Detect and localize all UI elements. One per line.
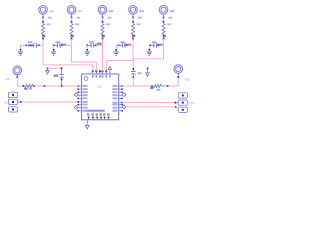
U1 designator	[97, 85, 101, 89]
port J6	[178, 107, 187, 112]
wire net2 to U1	[72, 39, 97, 71]
wire C5 to ground	[148, 45, 150, 50]
resistor R4 designator	[138, 17, 142, 19]
ground arrow A1	[46, 67, 50, 73]
resistor R1 value dark	[42, 35, 45, 38]
power port P2	[67, 6, 76, 19]
U1 left diamond 2	[74, 106, 78, 110]
capacitor C4 designator	[120, 41, 124, 43]
power port P5	[159, 6, 168, 19]
wire net4 to U1	[106, 39, 133, 71]
svg-text:IN: IN	[4, 101, 7, 105]
capacitor C2 value	[61, 44, 66, 46]
resistor R5	[162, 23, 165, 39]
resistor R6	[25, 84, 35, 87]
net label power 3	[109, 10, 114, 12]
ground GND4	[114, 52, 119, 55]
resistor R1 value	[47, 23, 51, 25]
resistor R6 label	[28, 88, 32, 90]
resistor R5 designator	[169, 17, 173, 19]
wire C3 to net3	[96, 44, 103, 46]
net label power 4	[139, 10, 144, 12]
resistor R4 value	[137, 23, 141, 25]
ground GND5	[147, 52, 152, 55]
capacitor C2 designator	[56, 41, 60, 43]
wire net5 to C7	[132, 39, 163, 70]
wire C1 to net1	[39, 44, 43, 46]
capacitor C1 value	[28, 44, 33, 46]
port J5	[178, 100, 187, 105]
capacitor C5 value	[157, 44, 162, 46]
power port VIN	[13, 66, 22, 78]
capacitor C3 value	[97, 43, 102, 45]
OUT label	[188, 101, 195, 105]
VDD label	[184, 77, 191, 81]
wire C2 to ground	[53, 45, 55, 50]
VIN label	[5, 77, 10, 81]
capacitor C4	[118, 43, 128, 48]
port J2	[8, 99, 17, 104]
ground GND3	[85, 52, 90, 55]
wire C4 to ground	[115, 45, 118, 50]
wire C8 to VIN net	[61, 79, 63, 86]
capacitor C3 designator	[89, 41, 93, 43]
power port P3	[98, 6, 107, 19]
net label power 2	[78, 10, 83, 12]
resistor R2 designator	[77, 17, 81, 19]
resistor R1	[41, 23, 44, 39]
power port P4	[129, 6, 138, 19]
U1 part number	[86, 110, 105, 112]
resistor R4	[131, 23, 134, 39]
wire R6 to U1	[34, 85, 78, 87]
resistor R6 value dark	[24, 88, 27, 90]
wire C5 to net5	[159, 44, 164, 46]
svg-text:U1: U1	[97, 85, 101, 89]
power port VDD	[174, 65, 183, 77]
capacitor C5 designator	[152, 41, 156, 43]
net label power 5	[170, 10, 175, 12]
capacitor C3	[86, 43, 96, 48]
svg-text:OUT: OUT	[188, 101, 195, 105]
resistor R3 designator	[108, 17, 112, 19]
wire power to R1	[42, 18, 44, 23]
capacitor C1	[25, 43, 40, 48]
U1 left diamond 1	[74, 93, 78, 97]
wire power to R4	[132, 18, 134, 23]
IC U1 body	[82, 74, 119, 120]
port J1	[8, 92, 17, 97]
resistor R3 value dark	[102, 35, 105, 38]
resistor R7	[153, 84, 168, 87]
capacitor C7 designator	[138, 72, 142, 74]
capacitor C2	[53, 43, 63, 48]
U1 left pins	[77, 85, 87, 112]
wire C2 to net2	[62, 44, 71, 46]
IN label	[4, 101, 7, 105]
U1 right diamond 1	[122, 93, 126, 97]
wire IN to U1	[18, 101, 79, 103]
U1 power pin arrow	[108, 66, 111, 77]
ground GND2	[51, 52, 56, 55]
ground GND1	[18, 52, 23, 55]
wire power to R5	[163, 18, 165, 23]
wire U1 to R7 net	[122, 85, 133, 87]
U1 top pins	[92, 70, 108, 77]
resistor R3	[101, 23, 104, 39]
resistor R7 label	[157, 89, 161, 91]
wire R7 to VDD	[168, 76, 179, 86]
wire C4 to net4	[127, 44, 133, 46]
wire net1 to U1	[43, 39, 93, 71]
resistor R2 value	[75, 23, 79, 25]
U1 right pins	[112, 85, 122, 112]
resistor R5 value dark	[163, 35, 166, 38]
wire C1 to ground	[20, 45, 26, 50]
svg-text:VIN: VIN	[5, 77, 10, 81]
wire U1 diamond to port J6	[126, 106, 177, 108]
wire power to R3	[102, 18, 104, 23]
U1 bottom pins	[87, 113, 109, 120]
port J3	[8, 107, 17, 112]
resistor R4 value dark	[132, 35, 135, 38]
resistor R1 designator	[48, 17, 52, 19]
wire ground to C8	[48, 67, 63, 69]
wire C3 to ground	[86, 45, 88, 50]
capacitor C7	[131, 69, 136, 78]
capacitor C4 value	[126, 44, 131, 46]
capacitor C8 value	[54, 75, 59, 77]
resistor R2	[70, 23, 73, 39]
wire U1 to OUT	[122, 102, 178, 104]
ground arrow C7	[146, 68, 150, 77]
U1 right diamond 2	[122, 105, 126, 109]
port J4	[178, 93, 187, 98]
resistor R7 value dark	[150, 87, 153, 89]
ground arrow U1	[85, 120, 89, 129]
resistor R3 value	[106, 23, 110, 25]
capacitor C1 designator	[28, 41, 32, 43]
resistor R2 value dark	[71, 35, 74, 38]
power port P1	[39, 6, 48, 19]
net label power 1	[49, 10, 54, 12]
wire C7 down	[133, 78, 152, 87]
svg-text:VDD: VDD	[184, 77, 191, 81]
wire net3 to U1	[102, 39, 104, 71]
resistor R5 value	[167, 23, 171, 25]
capacitor C5	[149, 43, 159, 48]
wire power to R2	[71, 18, 73, 23]
capacitor C8	[59, 68, 64, 80]
wire VIN to R6	[17, 77, 24, 87]
